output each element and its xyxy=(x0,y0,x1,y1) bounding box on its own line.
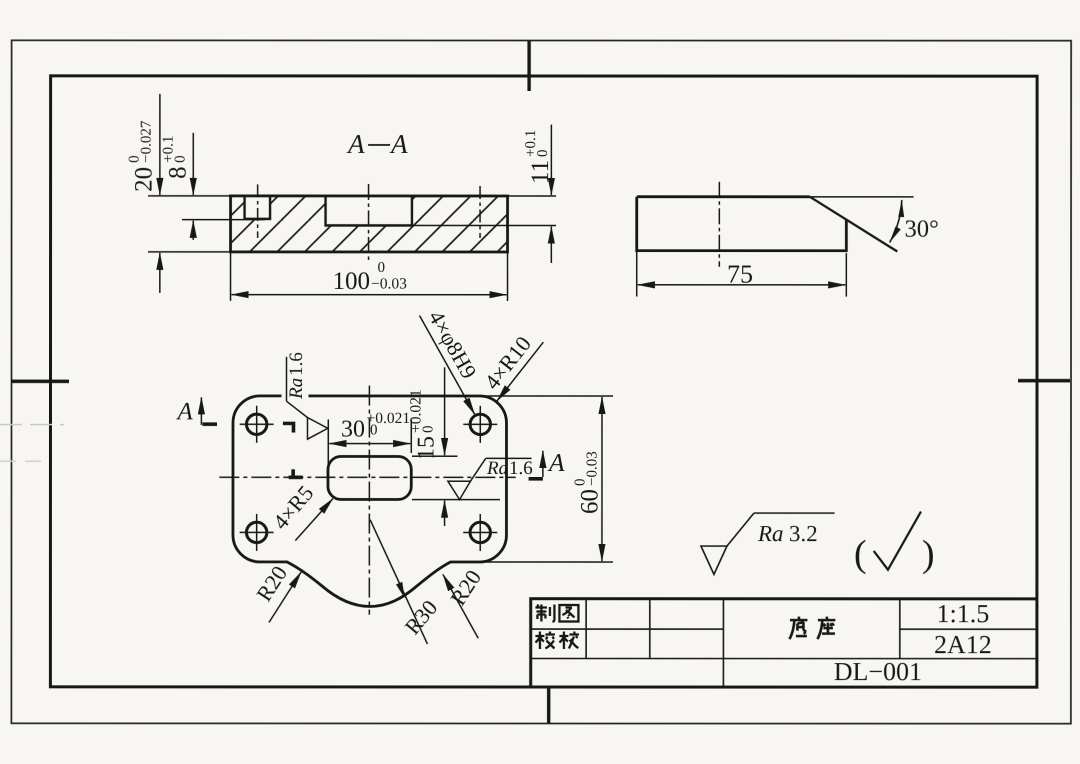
left hole center line xyxy=(257,184,259,238)
svg-text:Ra: Ra xyxy=(286,378,307,400)
svg-text:11: 11 xyxy=(527,160,554,184)
svg-text:2A12: 2A12 xyxy=(934,630,992,659)
faint scan artifact lines left xyxy=(0,424,64,426)
svg-text:A: A xyxy=(547,448,565,477)
hole top-left xyxy=(246,414,266,434)
leader 4xPhi8H9 xyxy=(419,316,474,415)
dim 8 +0.1 xyxy=(192,133,194,195)
hatched cut area xyxy=(231,196,508,252)
char xiao (校) xyxy=(535,631,555,649)
svg-text:30°: 30° xyxy=(905,216,939,243)
blind hole window xyxy=(245,196,271,219)
section center line xyxy=(368,184,370,262)
svg-text:A: A xyxy=(175,398,193,425)
section step corner 2 xyxy=(289,469,303,477)
leader 4xR5 xyxy=(295,499,333,541)
svg-text:A: A xyxy=(389,129,408,159)
svg-text:0: 0 xyxy=(370,422,378,438)
centering mark bottom xyxy=(547,687,550,723)
svg-text:Ra: Ra xyxy=(757,521,784,546)
leader R30 xyxy=(370,520,427,644)
leader R20 right xyxy=(443,574,478,638)
svg-text:R30: R30 xyxy=(400,595,443,639)
centering mark top xyxy=(527,41,530,91)
gap in body edge for Ra symbol xyxy=(281,391,308,400)
svg-text:−0.03: −0.03 xyxy=(371,275,407,292)
svg-text:): ) xyxy=(922,533,935,575)
dim 11 +0.1 xyxy=(550,125,552,195)
svg-text:4×R5: 4×R5 xyxy=(268,480,319,534)
svg-text:0: 0 xyxy=(420,425,436,433)
extension lines xyxy=(148,195,230,197)
svg-text:100: 100 xyxy=(333,268,371,295)
svg-text:0: 0 xyxy=(535,149,551,157)
svg-text:1:1.5: 1:1.5 xyxy=(937,599,990,628)
dim 100 -0.03 xyxy=(232,294,507,296)
Ra3.2 symbol xyxy=(701,546,727,574)
svg-text:−0.03: −0.03 xyxy=(584,451,600,486)
right hole center line xyxy=(479,186,481,238)
hole top-right xyxy=(470,414,490,434)
svg-text:4×φ8H9: 4×φ8H9 xyxy=(424,306,482,383)
dim 60 -0.03 xyxy=(480,395,613,397)
hole bottom-left xyxy=(246,522,266,542)
svg-text:(: ( xyxy=(854,533,867,575)
centering mark right xyxy=(1018,379,1070,382)
Ra1.6 symbol (right of slot) xyxy=(448,481,471,499)
char zhi (制) xyxy=(535,604,554,621)
horizontal center line xyxy=(219,476,515,478)
dim 20 -0.027 xyxy=(159,94,161,195)
section arrow right + A xyxy=(542,451,544,477)
dim 15 +0.021 xyxy=(412,455,457,457)
svg-text:15: 15 xyxy=(413,436,439,460)
svg-text:30: 30 xyxy=(341,416,365,442)
svg-text:3.2: 3.2 xyxy=(789,521,818,546)
30 deg arc xyxy=(890,200,902,243)
side view center line xyxy=(718,182,720,267)
hole bottom-right xyxy=(470,522,490,542)
svg-text:R20: R20 xyxy=(251,561,292,605)
vertical center line xyxy=(368,386,370,615)
inner drawing frame xyxy=(50,76,1037,687)
title block outline xyxy=(531,599,1037,687)
Ra1.6 symbol rotated (top) xyxy=(285,357,287,401)
svg-text:1.6: 1.6 xyxy=(286,352,307,376)
svg-text:Ra: Ra xyxy=(486,458,508,479)
char tu (图) xyxy=(559,605,578,622)
pocket window xyxy=(326,196,412,226)
centering mark left xyxy=(11,380,69,383)
side view outline xyxy=(637,197,847,251)
svg-text:0: 0 xyxy=(173,155,189,163)
svg-text:8: 8 xyxy=(165,166,192,179)
char he (核) xyxy=(559,632,579,650)
center slot xyxy=(328,456,411,499)
title block inner lines xyxy=(531,628,724,630)
svg-text:75: 75 xyxy=(727,260,753,289)
dim 75 xyxy=(636,252,638,296)
svg-text:DL−001: DL−001 xyxy=(834,657,922,686)
svg-text:1.6: 1.6 xyxy=(509,458,533,479)
section body outline xyxy=(231,196,508,252)
svg-text:0: 0 xyxy=(378,260,386,276)
leader R20 left xyxy=(269,572,301,622)
section step corner 1 xyxy=(283,423,294,432)
title text DiZuo (底座) xyxy=(789,617,807,640)
svg-text:20: 20 xyxy=(131,167,158,192)
top view outline xyxy=(233,396,507,607)
svg-text:60: 60 xyxy=(576,489,603,514)
top edge extension xyxy=(810,196,914,198)
svg-text:−0.027: −0.027 xyxy=(139,120,155,163)
dim 30 +0.021 xyxy=(327,419,329,477)
svg-text:R20: R20 xyxy=(445,565,486,609)
svg-text:A: A xyxy=(346,129,365,159)
chamfer line extended xyxy=(810,197,898,252)
leader 4xR10 xyxy=(497,342,543,401)
